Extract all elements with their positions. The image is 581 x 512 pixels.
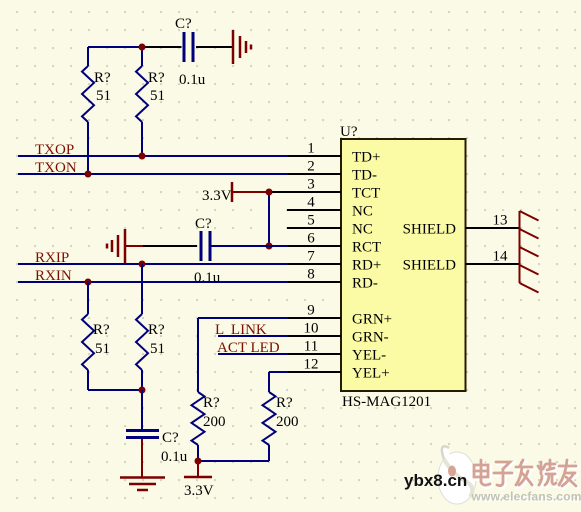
svg-text:C?: C? xyxy=(175,16,192,32)
svg-text:SHIELD: SHIELD xyxy=(403,222,456,238)
svg-text:NC: NC xyxy=(352,204,373,220)
svg-text:R?: R? xyxy=(148,322,165,338)
svg-text:3.3V: 3.3V xyxy=(184,483,214,499)
svg-text:0.1u: 0.1u xyxy=(194,270,221,286)
svg-text:13: 13 xyxy=(493,213,508,229)
svg-text:L LINK: L LINK xyxy=(215,322,267,338)
svg-text:3.3V: 3.3V xyxy=(202,188,232,204)
svg-text:2: 2 xyxy=(307,159,315,175)
svg-text:12: 12 xyxy=(304,357,319,373)
svg-text:ybx8.cn: ybx8.cn xyxy=(404,471,467,490)
svg-text:3: 3 xyxy=(307,177,315,193)
svg-text:YEL+: YEL+ xyxy=(352,366,390,382)
svg-text:TD+: TD+ xyxy=(352,150,380,166)
svg-text:14: 14 xyxy=(493,249,509,265)
svg-text:10: 10 xyxy=(304,321,319,337)
svg-text:4: 4 xyxy=(307,195,315,211)
svg-text:ACT LED: ACT LED xyxy=(217,340,280,356)
svg-text:HS-MAG1201: HS-MAG1201 xyxy=(342,394,431,410)
svg-text:R?: R? xyxy=(93,322,110,338)
svg-text:RCT: RCT xyxy=(352,240,381,256)
svg-text:7: 7 xyxy=(307,249,315,265)
svg-text:RXIN: RXIN xyxy=(35,268,72,284)
svg-text:C?: C? xyxy=(162,430,179,446)
svg-text:RD-: RD- xyxy=(352,276,378,292)
svg-text:GRN-: GRN- xyxy=(352,330,389,346)
svg-text:C?: C? xyxy=(195,216,212,232)
svg-text:R?: R? xyxy=(203,395,220,411)
svg-text:www.elecfans.com: www.elecfans.com xyxy=(471,490,581,504)
svg-text:0.1u: 0.1u xyxy=(179,72,206,88)
svg-text:1: 1 xyxy=(307,141,315,157)
svg-text:GRN+: GRN+ xyxy=(352,312,392,328)
svg-text:NC: NC xyxy=(352,222,373,238)
svg-text:TXON: TXON xyxy=(35,160,77,176)
svg-text:200: 200 xyxy=(203,414,226,430)
svg-text:51: 51 xyxy=(95,341,110,357)
svg-text:TXOP: TXOP xyxy=(35,142,74,158)
svg-text:U?: U? xyxy=(340,124,358,140)
svg-text:RXIP: RXIP xyxy=(35,250,69,266)
svg-text:8: 8 xyxy=(307,267,315,283)
svg-text:5: 5 xyxy=(307,213,315,229)
svg-text:YEL-: YEL- xyxy=(352,348,386,364)
svg-text:51: 51 xyxy=(150,88,165,104)
svg-text:0.1u: 0.1u xyxy=(161,449,188,465)
svg-text:TD-: TD- xyxy=(352,168,377,184)
svg-text:9: 9 xyxy=(307,303,315,319)
svg-text:6: 6 xyxy=(307,231,315,247)
svg-text:RD+: RD+ xyxy=(352,258,381,274)
svg-text:51: 51 xyxy=(150,341,165,357)
svg-text:51: 51 xyxy=(96,88,111,104)
svg-text:R?: R? xyxy=(94,70,111,86)
svg-text:TCT: TCT xyxy=(352,186,380,202)
svg-text:R?: R? xyxy=(148,70,165,86)
svg-text:11: 11 xyxy=(304,339,318,355)
svg-text:R?: R? xyxy=(276,395,293,411)
svg-text:SHIELD: SHIELD xyxy=(403,258,456,274)
svg-text:200: 200 xyxy=(276,414,299,430)
